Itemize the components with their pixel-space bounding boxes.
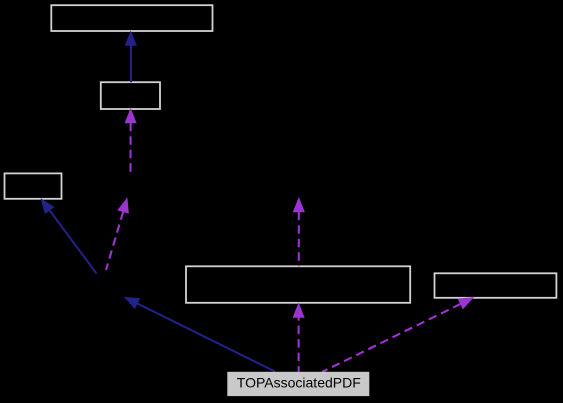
edge E6: dashed usage arrow TOPAssociatedPDF -> B6 [293,304,304,372]
node TOPAssociatedPDF (gray filled main node) [227,372,369,396]
edge E4: dashed usage arrow (invisible node) -> (invisible node), tilted [106,199,128,270]
node B8 (right box) [435,273,557,298]
node B3 (left box) [5,173,62,198]
edge E8: dashed usage arrow TOPAssociatedPDF -> B8, diagonal [322,298,473,372]
edge E1: solid inheritance arrow B2 -> B1 [126,32,137,83]
edge E7: dashed usage arrow B6 -> (invisible node) [294,198,305,266]
node B2 (second-level box) [101,82,160,109]
node B6 (wide middle box) [186,266,410,303]
edge E2: dashed usage arrow (invisible node) -> B2 [125,109,136,174]
edge E3: solid inheritance arrow (invisible node) -> B3 [41,199,96,273]
svg-text:TOPAssociatedPDF: TOPAssociatedPDF [237,375,361,391]
node B1 (top base-class box, empty/dark) [51,5,212,31]
edge E5: solid inheritance arrow TOPAssociatedPDF -> (invisible node) [125,297,275,371]
